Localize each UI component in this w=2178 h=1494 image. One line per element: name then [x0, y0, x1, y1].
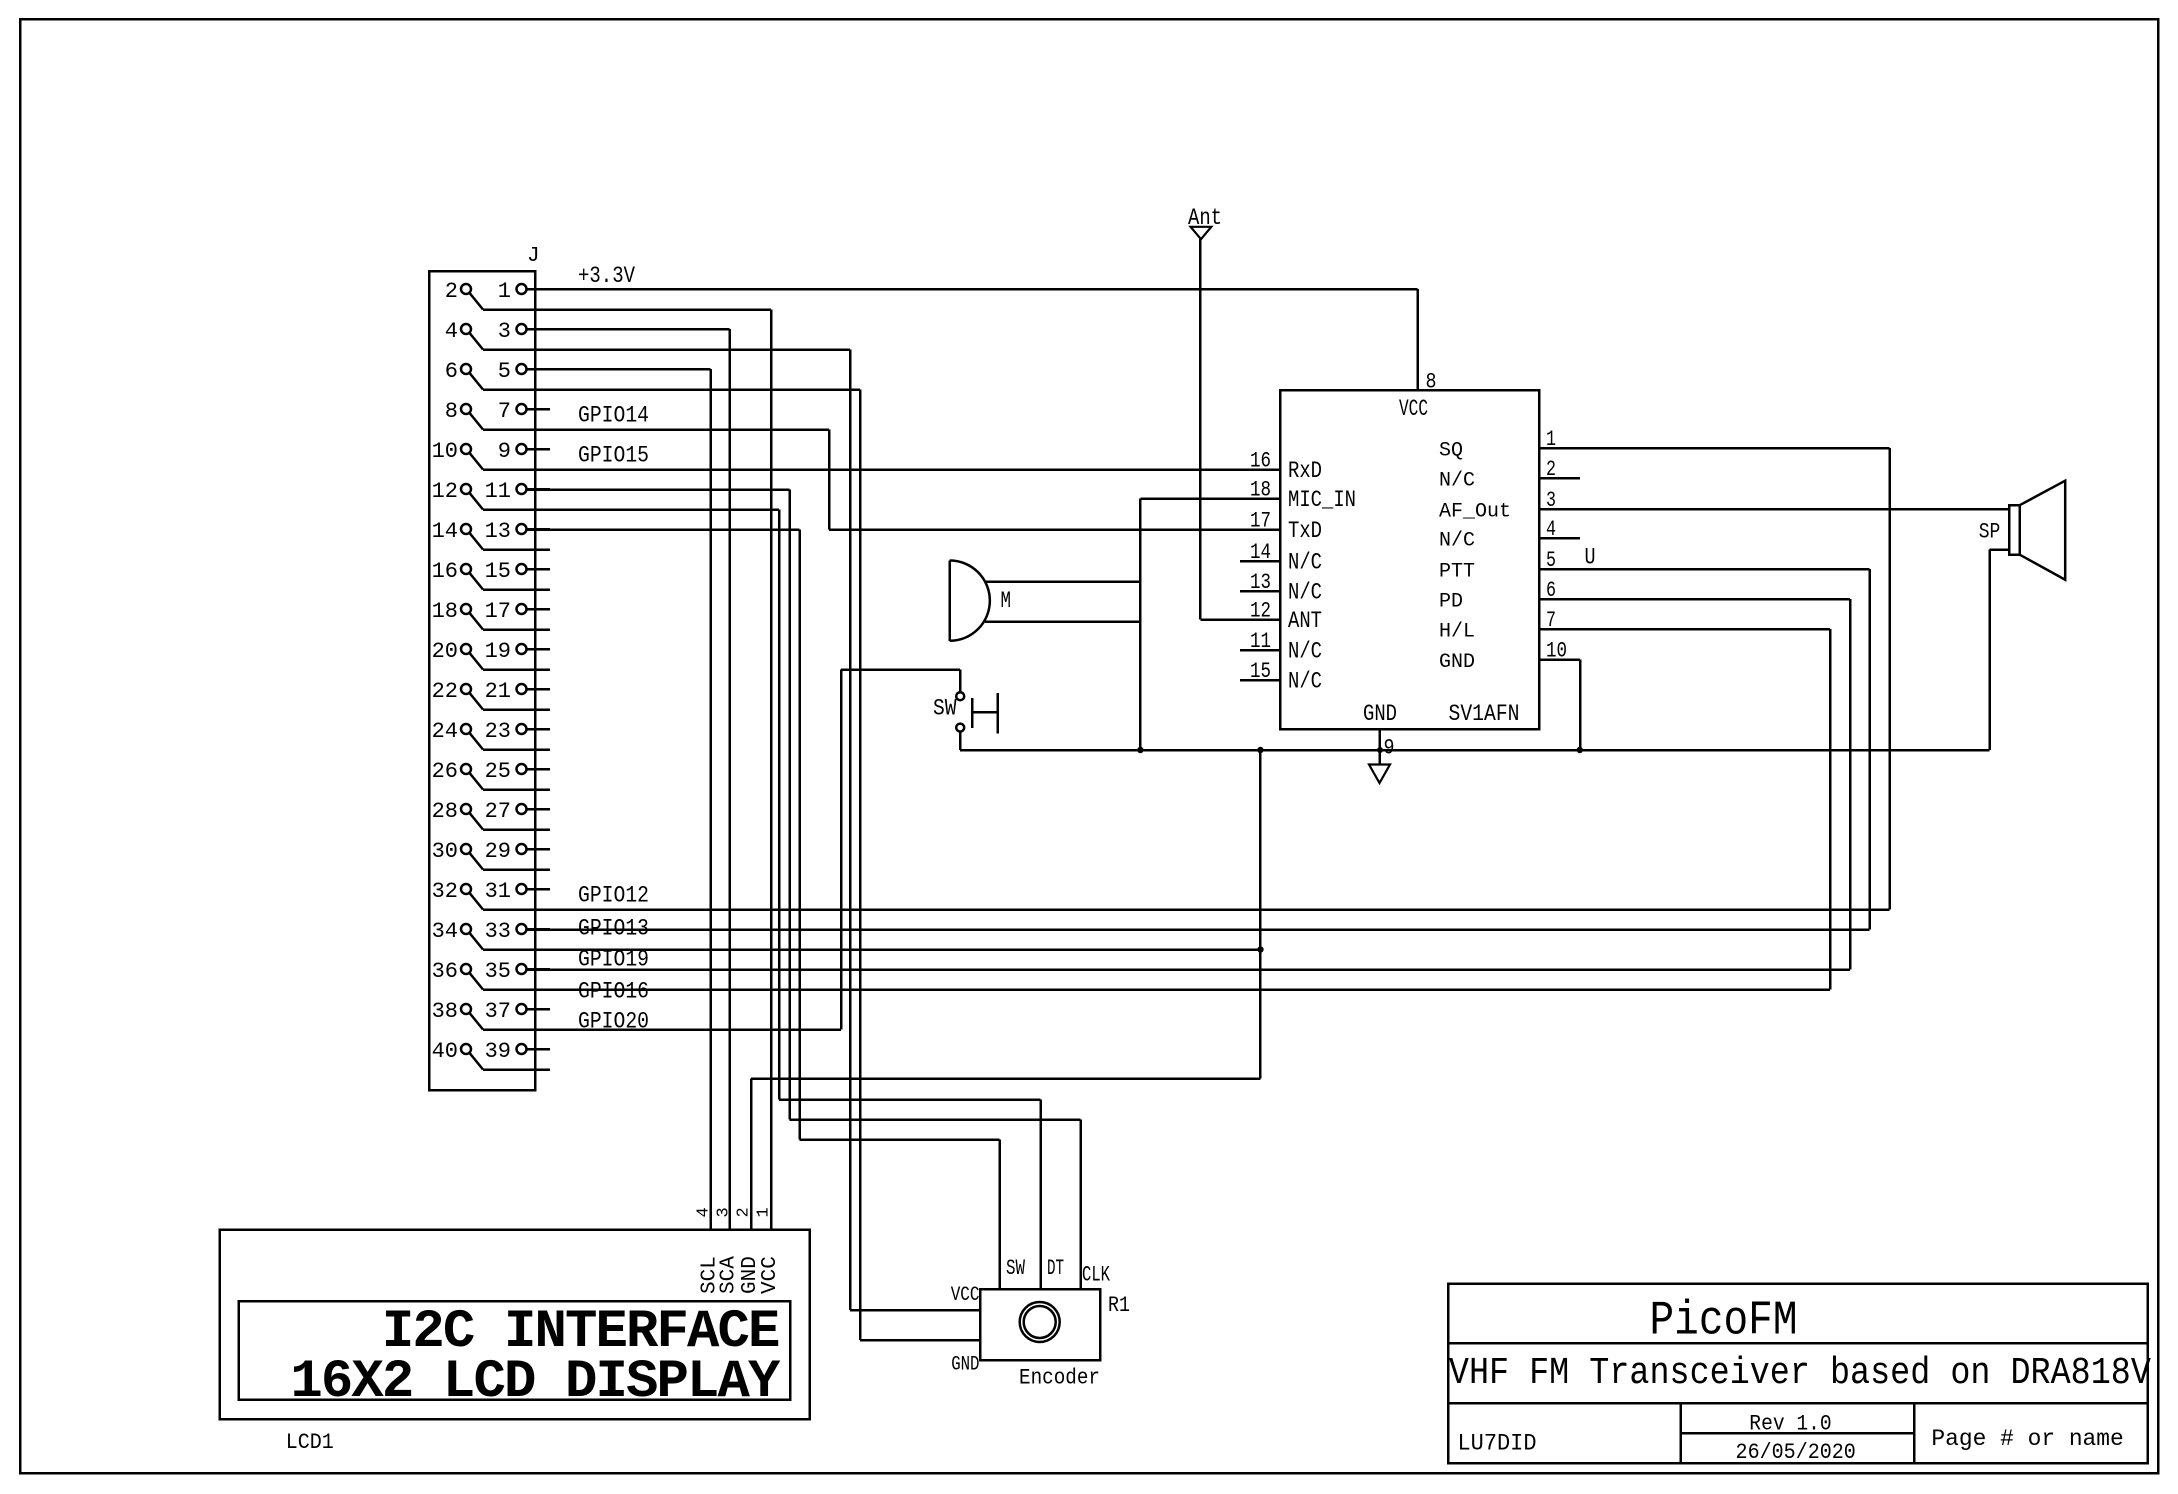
svg-text:8: 8: [445, 399, 458, 424]
svg-text:5: 5: [498, 359, 511, 384]
svg-text:32: 32: [432, 879, 458, 904]
svg-text:31: 31: [485, 879, 511, 904]
svg-text:17: 17: [485, 599, 511, 624]
svg-text:23: 23: [485, 719, 511, 744]
svg-text:R1: R1: [1108, 1293, 1130, 1318]
svg-text:11: 11: [485, 479, 511, 504]
svg-text:TxD: TxD: [1288, 518, 1322, 544]
svg-text:LCD1: LCD1: [286, 1430, 334, 1455]
svg-text:N/C: N/C: [1439, 530, 1475, 553]
svg-text:20: 20: [432, 639, 458, 664]
svg-text:1: 1: [755, 1207, 774, 1217]
svg-text:GND: GND: [1363, 701, 1397, 727]
svg-text:SV1AFN: SV1AFN: [1449, 701, 1520, 727]
svg-text:VCC: VCC: [759, 1256, 782, 1294]
svg-text:N/C: N/C: [1288, 669, 1322, 695]
svg-text:N/C: N/C: [1439, 470, 1475, 493]
svg-text:Rev 1.0: Rev 1.0: [1749, 1412, 1831, 1437]
svg-text:12: 12: [432, 479, 458, 504]
svg-text:7: 7: [498, 399, 511, 424]
svg-text:PicoFM: PicoFM: [1650, 1295, 1798, 1349]
svg-text:U: U: [1585, 545, 1596, 571]
svg-text:N/C: N/C: [1288, 580, 1322, 606]
svg-text:37: 37: [485, 999, 511, 1024]
svg-text:SCA: SCA: [718, 1256, 741, 1294]
svg-text:GPIO16: GPIO16: [578, 979, 649, 1005]
svg-text:SW: SW: [933, 696, 957, 722]
svg-text:GND: GND: [951, 1354, 979, 1377]
svg-text:N/C: N/C: [1288, 550, 1322, 576]
svg-text:14: 14: [432, 519, 458, 544]
svg-text:9: 9: [498, 439, 511, 464]
svg-text:CLK: CLK: [1082, 1263, 1111, 1288]
svg-text:34: 34: [432, 919, 458, 944]
svg-text:DT: DT: [1047, 1256, 1064, 1281]
svg-text:SW: SW: [1006, 1256, 1026, 1281]
svg-text:21: 21: [485, 679, 511, 704]
svg-text:35: 35: [485, 959, 511, 984]
svg-text:16X2 LCD DISPLAY: 16X2 LCD DISPLAY: [290, 1352, 781, 1413]
svg-text:26: 26: [432, 759, 458, 784]
svg-text:27: 27: [485, 799, 511, 824]
svg-text:33: 33: [485, 919, 511, 944]
svg-text:8: 8: [1426, 370, 1437, 395]
svg-text:M: M: [1001, 588, 1012, 614]
svg-text:VHF FM Transceiver based on DR: VHF FM Transceiver based on DRA818V: [1449, 1352, 2151, 1395]
svg-text:40: 40: [432, 1039, 458, 1064]
svg-text:29: 29: [485, 839, 511, 864]
svg-text:GPIO12: GPIO12: [578, 883, 649, 909]
svg-text:2: 2: [445, 279, 458, 304]
svg-text:PD: PD: [1439, 591, 1463, 614]
svg-text:LU7DID: LU7DID: [1458, 1431, 1537, 1457]
svg-text:36: 36: [432, 959, 458, 984]
svg-text:SQ: SQ: [1439, 440, 1463, 463]
svg-text:J: J: [527, 245, 540, 268]
svg-text:N/C: N/C: [1288, 639, 1322, 665]
svg-text:VCC: VCC: [951, 1284, 980, 1307]
svg-text:MIC_IN: MIC_IN: [1288, 487, 1356, 513]
svg-text:AF_Out: AF_Out: [1439, 501, 1511, 524]
svg-text:4: 4: [445, 319, 458, 344]
svg-text:26/05/2020: 26/05/2020: [1736, 1440, 1856, 1465]
svg-text:10: 10: [432, 439, 458, 464]
svg-text:3: 3: [715, 1207, 734, 1217]
svg-text:13: 13: [485, 519, 511, 544]
svg-text:30: 30: [432, 839, 458, 864]
svg-text:H/L: H/L: [1439, 621, 1475, 644]
svg-text:16: 16: [432, 559, 458, 584]
svg-text:24: 24: [432, 719, 458, 744]
svg-text:ANT: ANT: [1288, 608, 1322, 634]
svg-text:6: 6: [445, 359, 458, 384]
svg-text:VCC: VCC: [1399, 396, 1428, 422]
svg-text:2: 2: [735, 1207, 754, 1217]
svg-text:PTT: PTT: [1439, 561, 1475, 584]
svg-text:SP: SP: [1979, 520, 2001, 545]
svg-text:15: 15: [485, 559, 511, 584]
svg-text:9: 9: [1384, 736, 1395, 761]
svg-text:GPIO14: GPIO14: [578, 403, 649, 429]
svg-text:19: 19: [485, 639, 511, 664]
svg-text:Encoder: Encoder: [1019, 1366, 1100, 1391]
svg-text:25: 25: [485, 759, 511, 784]
svg-text:39: 39: [485, 1039, 511, 1064]
svg-text:38: 38: [432, 999, 458, 1024]
svg-text:+3.3V: +3.3V: [578, 263, 635, 289]
svg-text:Page # or name: Page # or name: [1931, 1426, 2123, 1452]
svg-text:GND: GND: [1439, 651, 1475, 674]
svg-text:1: 1: [498, 279, 511, 304]
svg-text:22: 22: [432, 679, 458, 704]
svg-text:3: 3: [498, 319, 511, 344]
svg-text:4: 4: [695, 1207, 714, 1217]
svg-text:GPIO15: GPIO15: [578, 443, 649, 469]
svg-text:RxD: RxD: [1288, 458, 1322, 484]
svg-text:28: 28: [432, 799, 458, 824]
svg-text:18: 18: [432, 599, 458, 624]
